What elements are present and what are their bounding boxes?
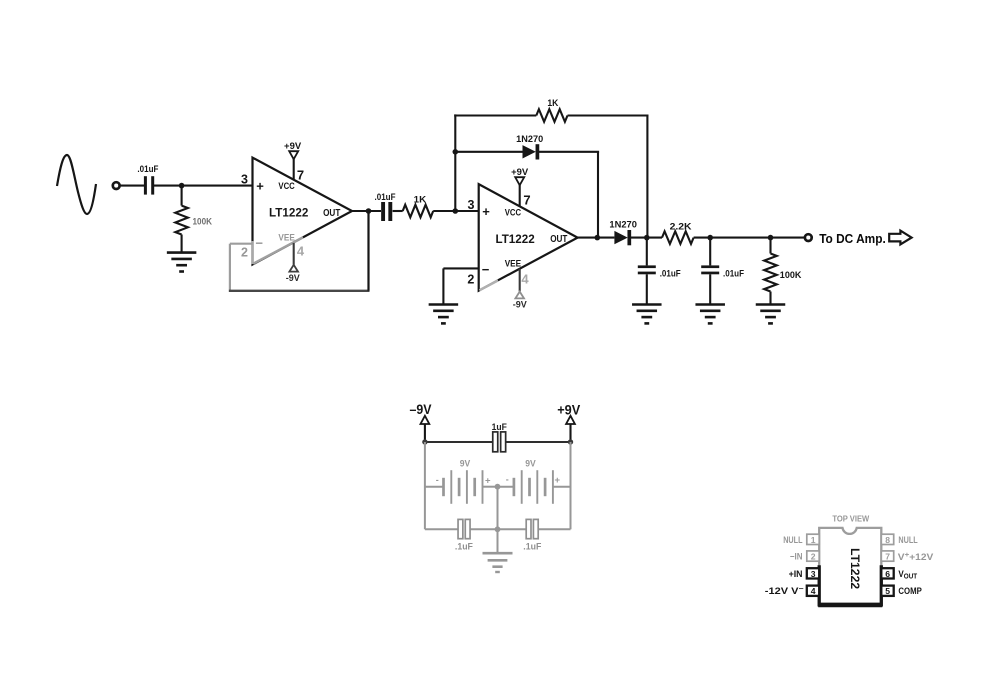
svg-text:4: 4 xyxy=(521,271,529,286)
capacitor C4 lower wire xyxy=(709,274,711,304)
svg-text:.01uF: .01uF xyxy=(375,192,397,202)
U1 -9V supply arrow xyxy=(289,265,298,272)
svg-text:7: 7 xyxy=(885,552,890,562)
svg-text:1K: 1K xyxy=(414,195,427,205)
svg-text:4: 4 xyxy=(297,243,305,258)
svg-text:.01uF: .01uF xyxy=(723,269,745,279)
U1 pin4 VEE supply wire xyxy=(293,243,295,265)
svg-text:.01uF: .01uF xyxy=(660,269,682,279)
wire R3 to output terminal xyxy=(694,237,805,239)
battery B1 9V xyxy=(436,459,491,504)
battery B2 9V wire left xyxy=(498,486,514,488)
svg-text:6: 6 xyxy=(885,569,890,579)
ground (R1) xyxy=(167,253,197,272)
svg-text:+IN: +IN xyxy=(789,569,803,579)
op-amp U1 labels xyxy=(241,168,340,260)
resistor R3 2.2K xyxy=(662,221,694,244)
svg-text:3: 3 xyxy=(241,172,248,186)
svg-text:COMP: COMP xyxy=(898,586,921,596)
bottom rail junction xyxy=(495,526,501,532)
U1 pin2 wire xyxy=(230,243,253,245)
IC pin 4 box xyxy=(807,586,819,597)
wire node A to R1 xyxy=(181,186,183,206)
output terminal xyxy=(805,234,812,241)
svg-text:−: − xyxy=(482,262,490,277)
capacitor C3 wire xyxy=(646,238,648,266)
right rail wire xyxy=(570,442,572,529)
svg-text:-: - xyxy=(436,475,439,485)
svg-text:2: 2 xyxy=(241,245,248,259)
svg-text:-9V: -9V xyxy=(286,273,300,283)
IC pin3 label +IN xyxy=(789,569,803,579)
U1 -9V label xyxy=(286,273,300,283)
svg-text:-12V V−: -12V V− xyxy=(765,586,804,596)
capacitor C6 .1uF xyxy=(523,519,541,551)
U1 feedback wire right vertical xyxy=(367,211,369,291)
output arrow icon xyxy=(889,231,911,245)
IC name LT1222 (vertical) xyxy=(848,548,862,589)
IC body upper outline (gray) xyxy=(819,528,881,566)
svg-text:VCC: VCC xyxy=(278,181,295,191)
U2 +9V label xyxy=(511,167,528,177)
svg-text:.1uF: .1uF xyxy=(523,541,541,551)
IC pinout TOP VIEW label xyxy=(832,513,870,523)
IC pin6 label VOUT xyxy=(898,569,917,581)
+9V rail arrow xyxy=(566,416,575,443)
feedback diode vertical wire xyxy=(597,152,599,238)
IC pin 8 box xyxy=(881,534,893,545)
svg-text:+: + xyxy=(256,179,264,194)
U1 feedback wire left vertical xyxy=(229,244,231,292)
wire U2 output xyxy=(578,237,615,239)
wire R2 to U2 +input xyxy=(433,210,479,212)
IC pin8 label NULL xyxy=(898,535,918,545)
svg-text:100K: 100K xyxy=(193,217,213,227)
IC pin4 label -12V V- xyxy=(765,586,804,596)
capacitor C4 .01uF xyxy=(701,265,744,278)
svg-text:−: − xyxy=(255,236,263,251)
input sine-wave signal source xyxy=(57,155,96,214)
node E junction xyxy=(644,235,650,241)
svg-text:+: + xyxy=(485,476,491,487)
svg-text:-9V: -9V xyxy=(513,299,527,309)
svg-text:1K: 1K xyxy=(547,98,559,108)
wire R1 to ground xyxy=(181,235,183,253)
diode D2 1N270 xyxy=(609,220,637,246)
svg-text:OUT: OUT xyxy=(550,234,567,245)
IC pin5 label COMP xyxy=(898,586,921,596)
diode D1 1N270 xyxy=(516,134,543,160)
ground (power supply) xyxy=(483,553,513,572)
U2 -9V supply arrow xyxy=(515,292,524,299)
wire R4 to ground xyxy=(769,292,771,305)
capacitor C1 .01uF xyxy=(137,164,159,194)
svg-text:NULL: NULL xyxy=(898,535,918,545)
wire to R5 xyxy=(454,114,536,116)
IC pin1 label NULL xyxy=(783,535,803,545)
IC pin 7 box xyxy=(881,551,893,562)
U2 +9V supply arrow xyxy=(515,177,524,185)
op-amp U2 labels xyxy=(467,193,567,287)
wire U1 output xyxy=(352,210,381,212)
top rail wire right xyxy=(506,441,570,443)
node F junction xyxy=(707,235,713,241)
svg-text:9V: 9V xyxy=(525,459,536,470)
wire C1 to op-amp U1 +input xyxy=(154,185,253,187)
svg-text:9V: 9V xyxy=(460,459,471,470)
battery B1 9V wire left xyxy=(425,486,444,488)
svg-text:LT1222: LT1222 xyxy=(848,548,862,589)
svg-text:OUT: OUT xyxy=(323,208,340,219)
capacitor C5 .1uF xyxy=(455,519,473,551)
svg-text:–9V: –9V xyxy=(410,402,432,417)
IC pin 6 box xyxy=(881,568,893,579)
svg-text:3: 3 xyxy=(468,198,475,212)
svg-text:8: 8 xyxy=(885,535,890,545)
U2 pin2 wire xyxy=(443,267,478,269)
U2 pin4 VEE supply wire xyxy=(519,269,521,292)
wire D1 to vertical xyxy=(539,151,599,153)
svg-text:+: + xyxy=(482,204,490,219)
+9V rail label xyxy=(557,403,580,418)
svg-text:1uF: 1uF xyxy=(492,422,508,432)
svg-text:NULL: NULL xyxy=(783,535,803,545)
svg-text:VEE: VEE xyxy=(505,258,521,268)
capacitor C3 lower wire xyxy=(646,274,648,304)
svg-text:VOUT: VOUT xyxy=(898,569,917,581)
IC pin7 label V+ +12V xyxy=(898,552,934,562)
center ground wire xyxy=(497,487,499,554)
svg-text:-: - xyxy=(506,475,509,485)
resistor R5 1K feedback xyxy=(536,98,567,122)
top rail junction left xyxy=(422,439,427,444)
svg-text:VEE: VEE xyxy=(278,233,294,243)
feedback vertical wire from node B xyxy=(454,114,456,211)
battery B2 wire right xyxy=(553,486,571,488)
svg-text:+: + xyxy=(555,475,561,486)
svg-text:To DC Amp.: To DC Amp. xyxy=(819,231,886,246)
U1 +9V label xyxy=(284,141,301,151)
-9V rail arrow xyxy=(421,416,430,443)
output label To DC Amp. xyxy=(819,231,886,246)
feedback right vertical wire xyxy=(646,116,648,238)
resistor R4 100K xyxy=(764,254,802,292)
svg-text:LT1222: LT1222 xyxy=(269,206,309,220)
IC pin 3 box xyxy=(807,568,819,579)
IC pin 1 box xyxy=(807,534,819,545)
node G junction xyxy=(768,235,774,241)
battery B2 9V xyxy=(506,459,561,504)
top rail junction right xyxy=(568,439,573,444)
ground (R4) xyxy=(756,305,786,324)
ground (C3) xyxy=(632,305,662,324)
IC pin 2 box xyxy=(807,551,819,562)
svg-text:4: 4 xyxy=(811,586,816,596)
U1 output junction xyxy=(366,208,372,214)
wire input to C1 xyxy=(120,185,144,187)
svg-text:7: 7 xyxy=(523,193,530,208)
svg-text:100K: 100K xyxy=(780,270,802,280)
wire D2 to node E xyxy=(631,237,662,239)
capacitor C7 1uF xyxy=(492,422,508,452)
op-amp U2 LT1222 triangle xyxy=(479,184,578,291)
U1 pin7 VCC supply wire xyxy=(293,159,295,180)
resistor R1 100K xyxy=(175,206,212,235)
svg-text:+9V: +9V xyxy=(511,167,528,177)
top rail wire left xyxy=(425,441,492,443)
wire node G to R4 xyxy=(769,238,771,254)
resistor R2 1K xyxy=(403,195,434,218)
capacitor C4 wire xyxy=(709,238,711,266)
node B junction xyxy=(453,208,459,214)
svg-text:1N270: 1N270 xyxy=(516,134,543,144)
svg-text:1: 1 xyxy=(811,535,816,545)
wire R5 to right vertical xyxy=(568,114,649,116)
wire node C to D1 xyxy=(455,151,522,153)
node D junction xyxy=(595,235,601,241)
svg-text:5: 5 xyxy=(885,586,890,596)
capacitor C3 .01uF xyxy=(638,265,681,278)
svg-text:1N270: 1N270 xyxy=(609,220,637,230)
node C junction xyxy=(453,149,459,155)
U2 pin7 VCC supply wire xyxy=(519,185,521,206)
svg-text:2: 2 xyxy=(467,272,474,286)
capacitor C2 .01uF xyxy=(375,192,397,221)
svg-text:+9V: +9V xyxy=(557,403,580,418)
svg-text:−IN: −IN xyxy=(790,552,803,562)
svg-text:2.2K: 2.2K xyxy=(670,221,693,231)
svg-text:2: 2 xyxy=(811,552,816,562)
svg-text:3: 3 xyxy=(811,569,816,579)
svg-text:TOP VIEW: TOP VIEW xyxy=(832,513,870,523)
bottom rail wire xyxy=(425,528,571,530)
svg-text:+9V: +9V xyxy=(284,141,301,151)
node A junction xyxy=(179,183,185,189)
U2 pin2 wire vertical xyxy=(442,268,444,304)
left rail wire xyxy=(424,442,426,529)
IC pin2 label -IN xyxy=(790,552,803,562)
U1 +9V supply arrow xyxy=(289,151,298,159)
U2 -9V label xyxy=(513,299,527,309)
battery B1 wire right xyxy=(483,486,498,488)
input terminal xyxy=(113,182,120,189)
svg-text:VCC: VCC xyxy=(505,208,522,218)
svg-text:7: 7 xyxy=(297,168,304,183)
svg-text:.1uF: .1uF xyxy=(455,541,473,551)
ground (U2 pin2) xyxy=(429,305,459,324)
ground (C4) xyxy=(695,305,725,324)
op-amp U1 LT1222 triangle xyxy=(253,158,353,265)
-9V rail label xyxy=(410,402,432,417)
IC pin 5 box xyxy=(881,586,893,597)
U1 feedback wire bottom xyxy=(229,290,370,292)
IC body lower outline (black) xyxy=(818,565,882,605)
svg-text:V++12V: V++12V xyxy=(898,552,934,562)
svg-text:LT1222: LT1222 xyxy=(495,232,535,246)
svg-text:.01uF: .01uF xyxy=(137,164,159,174)
wire C2 to R2 xyxy=(393,210,403,212)
battery mid junction xyxy=(495,484,501,490)
